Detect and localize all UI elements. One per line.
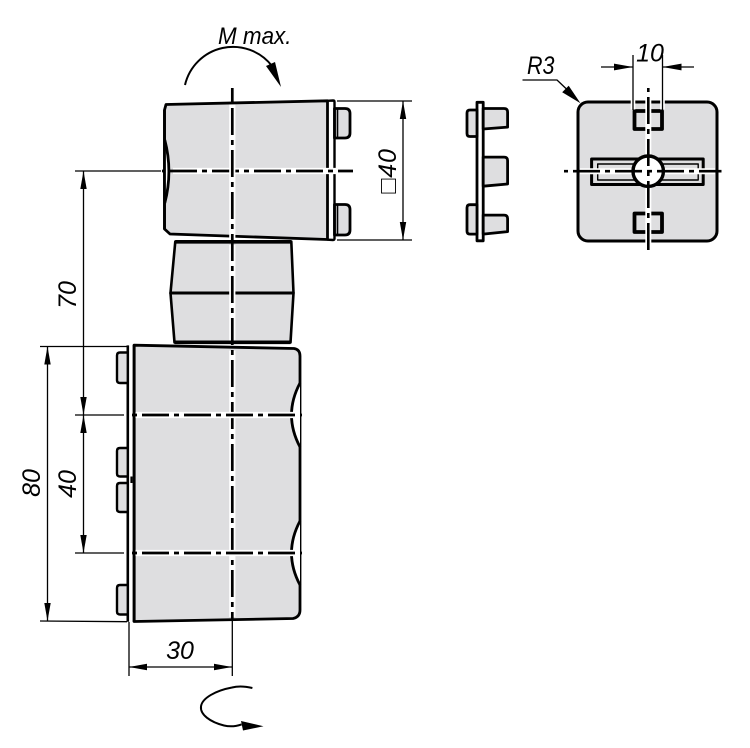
front view: neck lower segment (171, 293, 294, 343)
side profile: right lug top (483, 109, 507, 130)
front view: top block left clamp arc (165, 140, 169, 203)
svg-text:80: 80 (18, 469, 46, 497)
side profile: right lug middle (483, 157, 507, 186)
front view: lug root line top (337, 109, 339, 139)
dimension 30: line (129, 666, 232, 668)
dimension 80: top arrow (44, 347, 50, 365)
front view: left lug 1 (117, 353, 128, 384)
centerline extension left of upper horizontal (75, 414, 124, 416)
dimension 10: right arrow (pointing left) (663, 64, 682, 71)
front view: bottom block left plate (white interior) (128, 346, 134, 621)
front view: top block left relief (white lens) (165, 140, 169, 203)
front view: bottom block plate outer line (127, 345, 130, 621)
centerline casing: bottom block upper horizontal (136, 412, 300, 418)
centerline extension below (30 dim right) (231, 621, 233, 676)
centerline casing: bottom block lower horizontal (136, 550, 300, 556)
dimension 10: extension line right (662, 55, 664, 110)
front view: lug root line bottom (337, 205, 339, 236)
front view: top block right lower lug (335, 205, 351, 236)
radius label R3 arrowhead (562, 86, 580, 104)
rotation arc bottom (201, 687, 252, 727)
dimension 40 left: top arrow (80, 415, 86, 433)
front view: neck bottom junction line (175, 340, 291, 344)
front view: bottom block plate inner line (body edge) (133, 345, 136, 621)
dimension 10: extension line left (632, 55, 634, 110)
torque arc M max (185, 47, 272, 85)
end view centerline casing vertical (645, 99, 651, 244)
end view: slot outer rect (592, 159, 704, 185)
front view: top block left edge restroke (163, 110, 166, 229)
front view: neck upper segment (171, 242, 294, 294)
front view: left lug 3 (117, 483, 128, 512)
front view: bottom block body (134, 345, 300, 621)
centerline: top block horizontal (dash-dot) (162, 170, 353, 173)
front view: bottom block right edge clamp arc lower (white relief) (292, 521, 301, 585)
dimension 10: right tail line (663, 66, 695, 68)
front view: bottom block right edge clamp arc upper (white relief) (292, 383, 301, 447)
front view: neck middle line (171, 292, 294, 295)
dimension 80: extension line top (40, 346, 127, 348)
front view: left lug 4 (117, 585, 128, 615)
centerline: front view vertical tick above block (231, 88, 234, 103)
end view: rounded square body (578, 102, 717, 241)
centerline extension left of lower horizontal (75, 552, 124, 554)
dimension 70: bottom arrow (80, 397, 86, 415)
dimension 40 left: bottom arrow (80, 535, 86, 553)
centerline extension left (70 dim) (75, 170, 161, 172)
dimension square-40: extension line bottom (337, 239, 412, 241)
front view: top block end plate fill (328, 101, 335, 241)
svg-text:30: 30 (166, 637, 194, 665)
dimension 80: line (47, 347, 49, 622)
end view: top square hole (635, 111, 663, 129)
centerline casing: top block horizontal (173, 168, 352, 174)
side profile: left lug top (467, 110, 477, 137)
end view: bottom square hole (635, 214, 663, 233)
front view: plate step between lugs 2 and 3 (130, 477, 132, 484)
svg-text:□40: □40 (374, 148, 402, 193)
dimension 30: right arrow (214, 664, 232, 670)
centerline: bottom block lower horizontal (128, 552, 302, 555)
front view: left lug 2 (117, 448, 128, 477)
dimension square-40: bottom arrow (400, 222, 406, 240)
dimension 40 left: line (83, 415, 85, 553)
svg-text:M max.: M max. (218, 23, 292, 50)
end view: slot inner rect (598, 164, 699, 180)
front view: top block end plate outline (328, 101, 335, 241)
svg-text:R3: R3 (527, 52, 555, 80)
dimension 70: line (83, 171, 85, 415)
dimension 10: left arrow (pointing right) (614, 64, 633, 71)
dimension 30: extension line left (128, 622, 130, 676)
front view: top block right upper lug (335, 109, 351, 139)
end view centerline horizontal (564, 170, 722, 173)
rotation arc arrowhead (241, 721, 264, 731)
front view: top clamp block body fill (165, 101, 328, 240)
dimension 10: extension line halos (633, 99, 663, 110)
dimension 10: left tail line (601, 66, 633, 68)
svg-text:70: 70 (54, 281, 82, 309)
end view centerline vertical (647, 88, 650, 255)
dimension square-40: extension line top (337, 100, 412, 102)
dimension square-40: line (402, 101, 404, 240)
dimension 70: top arrow (80, 171, 86, 189)
dimension square-40: top arrow (400, 101, 406, 119)
side profile: left lug bottom (467, 205, 477, 234)
front view: neck top junction line (175, 240, 291, 244)
svg-text:10: 10 (636, 40, 664, 68)
centerline casing: front view vertical (229, 105, 235, 618)
centerline: bottom block upper horizontal (128, 414, 302, 417)
front view: top block outline (165, 101, 328, 240)
dimension 30: left arrow (129, 664, 147, 670)
radius label R3 leader line (523, 80, 568, 90)
svg-text:40: 40 (54, 470, 82, 498)
end view centerline casing horizontal (580, 168, 715, 174)
end view: center circle (633, 156, 663, 186)
dimension 80: extension line bottom (40, 620, 127, 623)
dimension 80: bottom arrow (44, 603, 50, 621)
side profile: right lug bottom (483, 215, 507, 234)
torque arc arrowhead (266, 62, 281, 87)
centerline: front view vertical (dash-dot) (231, 106, 234, 620)
side profile view: center plate (477, 102, 483, 241)
